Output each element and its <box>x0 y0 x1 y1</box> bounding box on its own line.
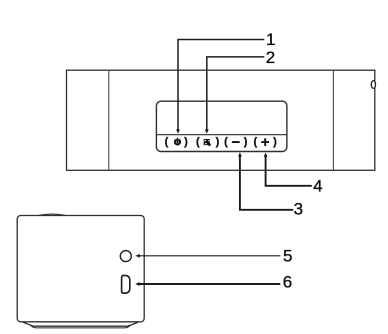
button row parentheses <box>165 136 278 148</box>
plus glyph <box>261 138 269 146</box>
svg-text:(: ( <box>253 136 257 148</box>
top device outline <box>67 70 375 170</box>
leader line 3 <box>240 156 293 210</box>
leader line 4 <box>266 156 312 186</box>
svg-text:(: ( <box>196 136 200 148</box>
svg-text:3: 3 <box>294 199 303 218</box>
svg-text:): ) <box>244 136 248 148</box>
minus glyph <box>232 141 240 143</box>
leader line 1 <box>178 40 264 130</box>
left divider <box>108 70 110 170</box>
power icon <box>175 139 180 145</box>
control panel <box>156 101 287 151</box>
top bump <box>39 214 66 215</box>
port (6) <box>122 275 130 293</box>
button circle (5) <box>120 251 131 262</box>
mute icon <box>204 139 212 146</box>
svg-text:5: 5 <box>283 247 292 266</box>
leader line 2 <box>207 57 264 130</box>
svg-text:1: 1 <box>266 30 275 49</box>
side oval on right edge <box>371 81 375 89</box>
svg-text:4: 4 <box>313 177 322 196</box>
svg-text:): ) <box>273 136 277 148</box>
leader line 6 <box>139 283 280 285</box>
svg-text:2: 2 <box>266 48 275 67</box>
svg-text:(: ( <box>165 136 169 148</box>
right divider <box>332 70 334 170</box>
svg-text:): ) <box>216 136 220 148</box>
svg-text:6: 6 <box>283 273 292 292</box>
svg-text:(: ( <box>224 136 228 148</box>
base dish <box>23 322 138 326</box>
panel inner line <box>156 134 287 136</box>
bottom device outline <box>17 216 144 322</box>
leader line 5 <box>139 255 280 257</box>
svg-text:): ) <box>184 136 188 148</box>
